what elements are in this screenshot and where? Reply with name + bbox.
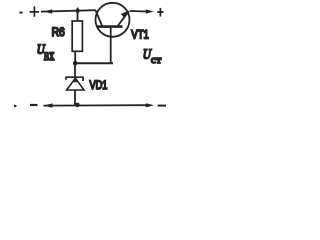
- node B junction dot middle (R, VD1, base): [73, 61, 78, 66]
- wire arrow bottom-right pointing right: [146, 103, 154, 107]
- wire stub above node A: [77, 8, 79, 11]
- node plus input terminal dash: [19, 12, 22, 14]
- svg-text:VD1: VD1: [90, 79, 108, 93]
- wire resistor top lead: [77, 11, 79, 22]
- node plus output terminal: [157, 8, 163, 17]
- zener diode VD1 triangle anode: [67, 78, 84, 90]
- node A junction dot top (wire to R): [76, 9, 80, 13]
- transistor VT1 base bar: [97, 25, 123, 28]
- node plus input terminal: [30, 6, 40, 16]
- wire resistor bottom lead: [74, 51, 76, 63]
- svg-text:VT1: VT1: [131, 28, 149, 41]
- wire top input from plus to transistor collector: [41, 10, 96, 11]
- svg-text:вх: вх: [44, 46, 55, 63]
- node minus input terminal dot: [14, 105, 16, 107]
- transistor VT1 collector lead diagonal: [96, 10, 102, 25]
- wire bottom rail: [44, 104, 147, 106]
- wire arrow bottom-left pointing left: [43, 103, 52, 107]
- wire arrow input pointing left: [43, 9, 52, 13]
- node minus output terminal: [158, 105, 166, 107]
- wire zener top lead from node B: [74, 64, 76, 77]
- zener diode VD1 cathode bar with wings: [66, 77, 83, 81]
- wire arrow output pointing right: [146, 10, 154, 14]
- node C junction dot bottom (zener to rail): [75, 103, 80, 108]
- wire top output from emitter to plus: [130, 10, 148, 13]
- node minus input terminal: [30, 104, 38, 106]
- wire zener bottom lead: [74, 90, 76, 106]
- transistor VT1 emitter lead diagonal with arrow: [118, 11, 129, 25]
- svg-text:R6: R6: [52, 26, 65, 39]
- wire middle from node B to transistor base: [75, 62, 113, 64]
- wire transistor base lead vertical: [110, 28, 112, 64]
- svg-text:ст: ст: [151, 55, 162, 66]
- resistor R6: [72, 21, 82, 51]
- transistor Q1 VT1 circle: [96, 3, 130, 37]
